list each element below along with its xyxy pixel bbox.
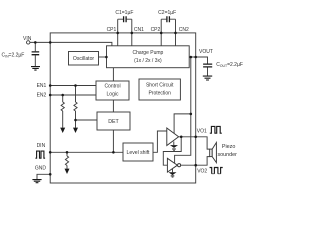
svg-text:Charge Pump: Charge Pump — [132, 50, 163, 56]
svg-text:Short Circuit: Short Circuit — [146, 82, 174, 88]
svg-text:CIN=2.2µF: CIN=2.2µF — [2, 53, 25, 59]
svg-text:EN1: EN1 — [37, 83, 47, 89]
svg-text:CP1: CP1 — [107, 27, 117, 33]
svg-text:CN2: CN2 — [179, 27, 189, 33]
svg-text:CP2: CP2 — [151, 27, 161, 33]
svg-text:GND: GND — [35, 166, 47, 172]
svg-text:EN2: EN2 — [37, 92, 47, 98]
svg-text:Protection: Protection — [148, 90, 171, 96]
svg-text:C2=1µF: C2=1µF — [158, 10, 176, 16]
svg-text:CN1: CN1 — [134, 27, 144, 33]
svg-text:sounder: sounder — [217, 152, 237, 158]
svg-text:COUT=2.2µF: COUT=2.2µF — [216, 62, 243, 68]
svg-text:DET: DET — [108, 119, 119, 125]
svg-text:VOUT: VOUT — [199, 49, 213, 55]
svg-text:VO2: VO2 — [197, 169, 207, 175]
svg-text:Level shift: Level shift — [127, 150, 151, 156]
svg-text:DIN: DIN — [37, 143, 46, 149]
svg-text:Piezo: Piezo — [222, 144, 236, 150]
svg-text:VIN: VIN — [23, 36, 32, 42]
svg-text:Oscillator: Oscillator — [73, 56, 95, 62]
svg-text:Control: Control — [104, 84, 120, 90]
svg-text:Logic: Logic — [107, 92, 119, 98]
svg-text:VO1: VO1 — [197, 129, 207, 135]
svg-text:C1=1µF: C1=1µF — [115, 10, 133, 16]
svg-text:(1x / 2x / 3x): (1x / 2x / 3x) — [134, 58, 162, 64]
